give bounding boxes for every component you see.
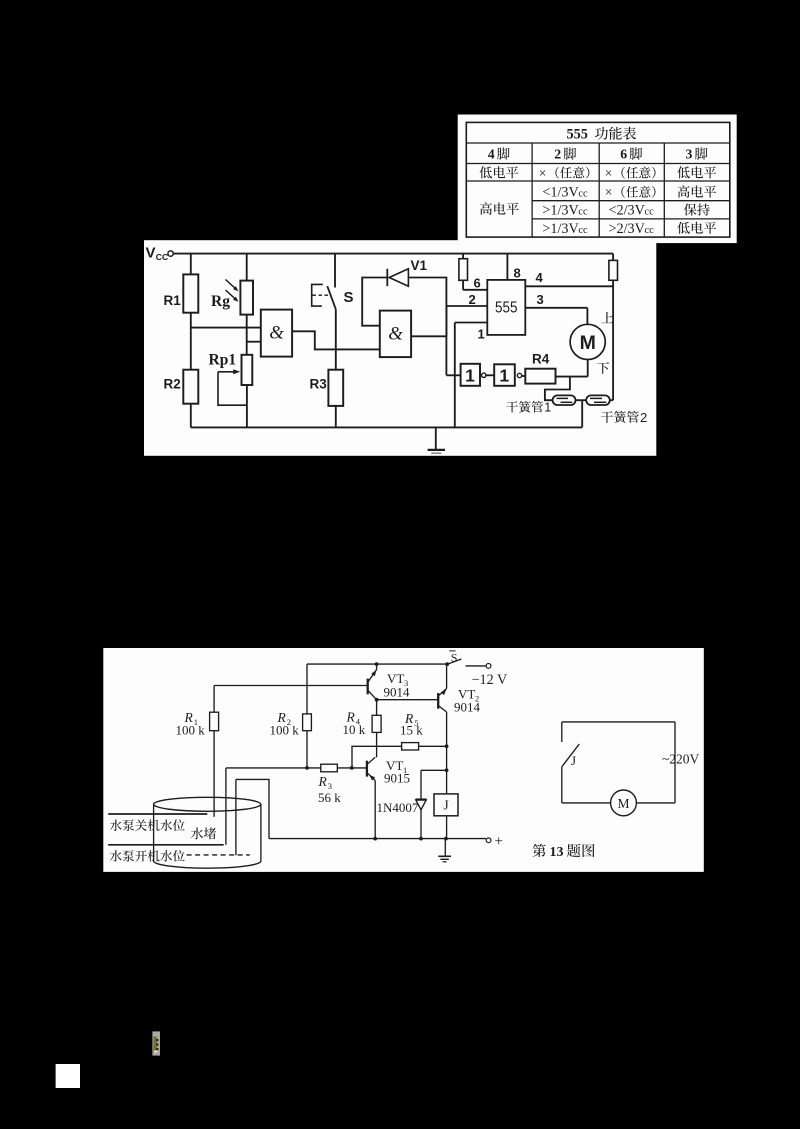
relay contact circuit: 220V loop — [562, 721, 675, 723]
label reed switch 2 — [601, 411, 613, 423]
motor M — [570, 324, 605, 359]
svg-text:R: R — [318, 774, 328, 789]
svg-text:<2/3V: <2/3V — [609, 203, 646, 219]
resistor R1 (circuit 2) — [213, 686, 215, 713]
svg-text:S: S — [344, 289, 354, 306]
wire: AND2 output to 555 pin 2 and inverter input — [445, 306, 447, 375]
svg-text:Rg: Rg — [211, 293, 230, 310]
svg-text:555: 555 — [495, 300, 518, 317]
svg-text:cc: cc — [578, 189, 588, 200]
svg-text:1: 1 — [499, 365, 509, 385]
svg-text:555: 555 — [567, 127, 588, 143]
svg-text:100 k: 100 k — [270, 723, 300, 738]
svg-text:>1/3V: >1/3V — [542, 221, 579, 237]
water tank — [154, 797, 261, 811]
resistor at 555 pin 6 — [462, 254, 464, 259]
Rg light arrows — [226, 280, 237, 290]
svg-text:×: × — [605, 165, 613, 180]
ground symbol (circuit 2) — [444, 839, 446, 856]
resistor at 555 pin 4 (right rail) — [612, 254, 614, 261]
wire: R1 top to VT3 base — [214, 685, 367, 687]
wire: R4 to motor bottom node — [556, 376, 588, 378]
probe wire 2 (pump-on level) — [225, 768, 227, 845]
white scan panel: 555 function table — [458, 115, 737, 244]
label pump-on level — [110, 850, 122, 862]
switch S — [334, 254, 336, 288]
svg-text:3: 3 — [537, 292, 544, 307]
transistor VT1 — [366, 761, 368, 777]
reed switch 2 — [586, 395, 610, 405]
svg-text:−12 V: −12 V — [472, 672, 508, 688]
svg-text:Rp1: Rp1 — [209, 352, 237, 369]
resistor R2 (circuit 2) — [306, 664, 308, 714]
svg-text:15 k: 15 k — [400, 723, 423, 738]
wire: jog down to reed switch 1 — [545, 377, 570, 401]
white scan panel: circuit 2 — [103, 648, 704, 872]
probe wire 3 (common, to bottom rail) — [236, 779, 269, 838]
resistor R3 (circuit 2) — [321, 764, 338, 772]
wire — [486, 374, 494, 376]
transistor VT3 — [367, 679, 369, 695]
svg-text:8: 8 — [514, 266, 521, 281]
svg-text:10 k: 10 k — [343, 722, 366, 737]
svg-text:1: 1 — [465, 365, 475, 385]
switch contact J — [562, 744, 580, 767]
wire: bottom rail — [269, 838, 486, 840]
wire: VT2 emitter down through relay node — [446, 712, 448, 794]
scan artifact: small badge — [152, 1031, 160, 1055]
AND gate U2 (&) — [380, 311, 411, 358]
wire: Rg node to AND1 input b — [247, 341, 261, 343]
svg-text:13: 13 — [550, 845, 564, 860]
wire: AND2 output — [411, 335, 446, 337]
svg-text:&: & — [388, 323, 403, 344]
svg-text:1N4007: 1N4007 — [377, 800, 419, 815]
svg-text:9014: 9014 — [454, 700, 481, 715]
table merged cell: 高电平 — [480, 202, 492, 215]
svg-text:M: M — [617, 796, 629, 811]
diode V1 feedback loop — [408, 278, 446, 337]
resistor R4 (circuit 2) — [376, 700, 378, 716]
svg-text:2: 2 — [469, 292, 476, 307]
white scan panel: circuit 1 — [144, 240, 656, 456]
svg-text:56 k: 56 k — [318, 790, 341, 805]
node + terminal — [486, 838, 491, 843]
svg-text:cc: cc — [578, 225, 588, 236]
wire: pin 6 — [463, 289, 487, 291]
ground symbol — [435, 427, 437, 449]
wire: 555 pin 1 to ground rail — [455, 322, 488, 324]
wire: VT1 base row — [226, 767, 321, 769]
resistor R5 (circuit 2) — [352, 746, 402, 768]
Rp1 wiper arrow and loop wire — [218, 371, 234, 373]
svg-text:cc: cc — [645, 225, 655, 236]
switch S (circuit 2) — [447, 659, 461, 664]
resistor R4 — [525, 369, 555, 384]
svg-text:S: S — [451, 650, 458, 664]
wire: diode top to relay node — [421, 769, 447, 771]
svg-text:J: J — [571, 753, 576, 768]
transistor VT2 — [437, 693, 439, 709]
wire: reed1 to reed2 with ground stub — [576, 399, 587, 401]
water level line: pump-on — [108, 844, 224, 846]
label water plug — [191, 827, 203, 839]
svg-text:cc: cc — [578, 207, 588, 218]
svg-text:×: × — [605, 185, 613, 200]
svg-text:>1/3V: >1/3V — [542, 203, 579, 219]
svg-text:J: J — [443, 798, 448, 813]
svg-text:CC: CC — [156, 252, 168, 262]
wire: 555 pin 8 to Vcc rail — [506, 254, 508, 280]
water level line: pump-off — [108, 813, 207, 815]
svg-text:9014: 9014 — [384, 685, 411, 700]
table horizontal rules — [466, 142, 730, 144]
photoresistor Rg — [246, 254, 248, 281]
wire: ground rail — [191, 426, 582, 428]
svg-text:6: 6 — [474, 275, 481, 290]
svg-text:100 k: 100 k — [176, 723, 206, 738]
svg-text:6: 6 — [620, 147, 627, 162]
svg-text:4: 4 — [488, 147, 495, 162]
svg-text:>2/3V: >2/3V — [609, 221, 646, 237]
wire: AND1 output jog to AND2 input b — [292, 331, 380, 349]
label up — [601, 312, 613, 323]
table column rules — [531, 143, 533, 237]
wire: R1/R2 node to AND1 input a — [191, 327, 261, 329]
label pump-off level — [110, 819, 122, 831]
svg-text:cc: cc — [645, 207, 655, 218]
svg-text:R2: R2 — [164, 377, 181, 392]
svg-text:9015: 9015 — [384, 771, 410, 786]
caption: problem 13 figure — [533, 844, 546, 857]
label down — [597, 362, 609, 374]
wire: -12V top rail — [307, 663, 447, 665]
reed switch 1 — [553, 395, 576, 405]
svg-text:V1: V1 — [411, 258, 428, 273]
timer IC 555 — [487, 280, 525, 335]
svg-text:&: & — [269, 323, 284, 344]
svg-text:1: 1 — [544, 401, 551, 415]
dashed water level — [187, 854, 250, 856]
svg-text:R3: R3 — [310, 377, 328, 392]
svg-text:1: 1 — [478, 327, 485, 342]
wire: inverter chain input — [446, 374, 460, 376]
svg-text:V: V — [146, 245, 156, 262]
potentiometer Rp1 — [242, 355, 253, 385]
resistor R3 — [328, 370, 343, 406]
wire: 555 pin 3 to motor — [525, 307, 587, 309]
relay coil J — [434, 794, 458, 816]
svg-text:×: × — [539, 165, 547, 180]
probe wire 1 (pump-off level) — [213, 731, 215, 817]
svg-text:M: M — [580, 332, 596, 354]
table row: 低电平 ×(任意) ×(任意) 低电平 — [480, 166, 492, 178]
svg-text:~220V: ~220V — [662, 752, 700, 767]
svg-text:+: + — [495, 834, 503, 850]
wire: right rail down to reed switch 2 — [612, 280, 614, 400]
svg-text:4: 4 — [536, 270, 544, 285]
motor M (220V) — [611, 790, 637, 816]
inverter gate 2 — [494, 364, 515, 386]
svg-text:R1: R1 — [164, 293, 182, 308]
table: 555 function table outer border — [466, 122, 730, 237]
label reed switch 1 — [506, 401, 518, 412]
resistor R1 — [190, 254, 192, 275]
wire — [522, 375, 526, 377]
wire: VT3 emitter to VT2 base — [377, 699, 439, 701]
svg-text:<1/3V: <1/3V — [542, 185, 579, 201]
scan artifact: white square — [56, 1064, 80, 1088]
wire: motor bottom — [587, 360, 589, 377]
wire: Vcc top rail — [173, 253, 613, 255]
diode 1N4007 — [420, 770, 422, 838]
svg-text:2: 2 — [640, 410, 647, 425]
svg-text:R4: R4 — [532, 351, 550, 366]
resistor R2 — [183, 370, 198, 404]
diode V1 — [389, 269, 408, 286]
svg-text:3: 3 — [686, 147, 693, 162]
AND gate U1 (&) — [261, 310, 292, 357]
svg-text:2: 2 — [554, 147, 561, 162]
inverter gate 1 — [461, 364, 480, 386]
wire: 555 pin 4 — [525, 285, 613, 287]
